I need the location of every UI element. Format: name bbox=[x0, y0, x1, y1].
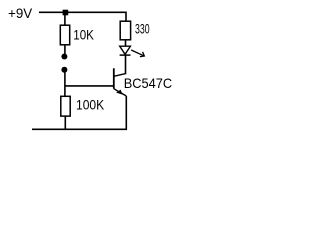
transistor Q1 base bar bbox=[113, 68, 115, 88]
node touch contact 1 bbox=[61, 54, 67, 60]
transistor Q1 collector line bbox=[114, 74, 126, 77]
transistor Q1 emitter arrow bbox=[116, 90, 123, 95]
wire bbox=[125, 55, 127, 74]
LED D1 cathode bar bbox=[120, 54, 131, 56]
svg-text:330: 330 bbox=[135, 21, 150, 37]
wire base bbox=[65, 85, 114, 87]
wire bbox=[64, 12, 66, 25]
wire bbox=[64, 70, 66, 97]
svg-text:BC547C: BC547C bbox=[124, 75, 172, 91]
LED D1 triangle bbox=[120, 46, 131, 54]
wire bbox=[64, 116, 66, 129]
wire +9V rail bbox=[39, 12, 126, 21]
transistor Q1 emitter line bbox=[114, 89, 127, 96]
svg-text:100K: 100K bbox=[76, 96, 105, 112]
resistor R3 100K bbox=[61, 96, 70, 116]
node A junction dot bbox=[63, 10, 69, 16]
svg-text:10K: 10K bbox=[73, 27, 94, 43]
resistor R1 10K bbox=[60, 25, 69, 45]
wire ground rail bbox=[32, 96, 126, 129]
wire bbox=[125, 40, 127, 47]
node touch contact 2 bbox=[61, 67, 67, 73]
LED light arrow bbox=[131, 50, 144, 57]
svg-text:+9V: +9V bbox=[8, 5, 33, 21]
wire bbox=[64, 45, 66, 54]
resistor R2 330 bbox=[120, 21, 130, 40]
